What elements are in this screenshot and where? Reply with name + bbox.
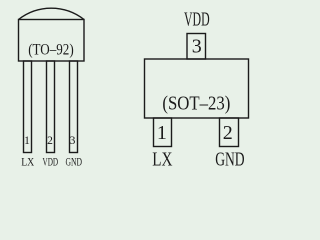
SOT-23 pin 2 pad [220,118,239,147]
TO-92 package body [19,20,85,62]
svg-text:3: 3 [192,36,202,58]
SOT-23 package body [145,59,249,118]
svg-text:2: 2 [223,122,233,144]
svg-text:VDD: VDD [184,9,210,31]
svg-text:(SOT–23): (SOT–23) [162,93,230,115]
TO-92 pin 1 lead [24,61,32,153]
svg-text:3: 3 [70,135,76,147]
TO-92 pin 3 lead [70,61,78,153]
svg-text:(TO–92): (TO–92) [28,42,73,59]
svg-text:1: 1 [24,135,30,147]
svg-text:LX: LX [152,149,172,171]
svg-text:GND: GND [66,155,83,169]
SOT-23 pin 3 pad [187,34,206,60]
svg-text:VDD: VDD [43,155,59,169]
svg-text:LX: LX [21,155,34,169]
TO-92 dome top [19,8,85,19]
svg-text:GND: GND [215,149,244,171]
svg-text:1: 1 [157,122,167,144]
svg-text:2: 2 [47,135,53,147]
SOT-23 pin 1 pad [154,118,172,147]
TO-92 pin 2 lead [47,61,55,153]
